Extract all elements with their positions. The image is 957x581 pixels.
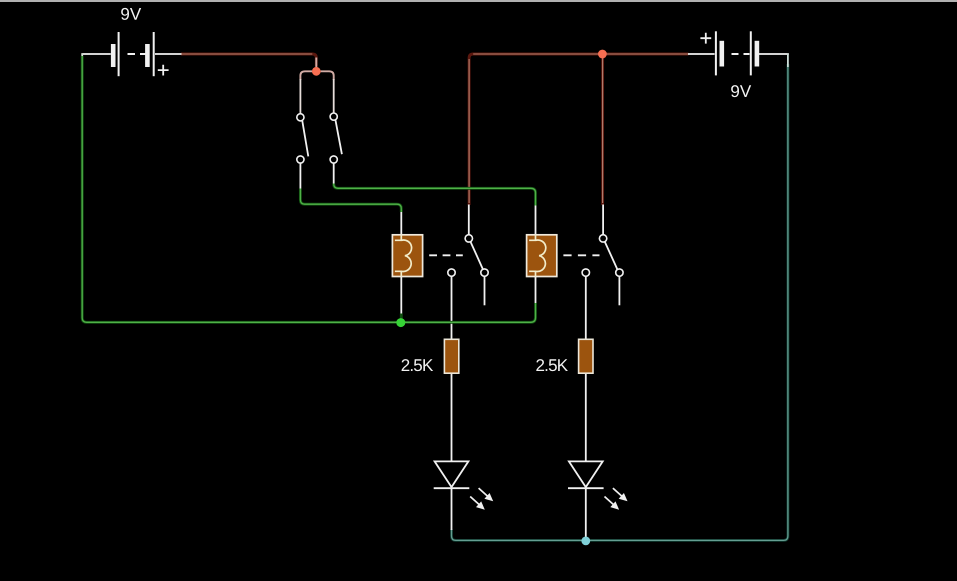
relay K2 switch: [582, 235, 623, 277]
relay K2 coil box: [527, 235, 557, 277]
LED D2: [568, 461, 604, 488]
wire: relay K1 NO contact stub: [484, 276, 486, 305]
battery B1 (9V): [113, 32, 154, 76]
wire: switch S1a bottom to relay K1 coil top (green): [300, 189, 401, 213]
node N2 (junction dot, +9V right): [598, 50, 607, 59]
switch S1b (lower pole): [330, 113, 342, 163]
wire: battery B1 negative to bottom rail (green net): [82, 56, 535, 322]
svg-text:2.5K: 2.5K: [536, 356, 569, 375]
node N3 (junction dot, green rail): [396, 318, 405, 327]
wire: relay K1 coil bottom lead: [400, 277, 402, 315]
wire: LED D2 cathode lead: [585, 488, 587, 537]
wire: node N1 vertical drop (light): [315, 58, 317, 68]
node N4 (junction dot, teal rail): [581, 537, 590, 546]
wire: node N1 branch to switch S1a: [300, 71, 312, 80]
wire: battery B2 positive feed (dark red): [469, 54, 688, 205]
wire: relay K2 NC contact to resistor R2: [585, 276, 587, 339]
window top edge: [0, 0, 957, 2]
svg-text:9V: 9V: [120, 5, 141, 24]
relay K2 linkage (dashed): [563, 254, 599, 256]
wire: relay K1 NC contact to resistor R1: [451, 276, 453, 339]
wire: battery B1 positive feed (dark red): [181, 54, 316, 67]
wire: switch S1b bottom lead: [333, 163, 335, 184]
wire: battery B2 right lead: [758, 53, 789, 55]
svg-text:9V: 9V: [730, 82, 751, 101]
resistor R1: [444, 339, 458, 373]
wire: relay K1 coil top lead: [400, 211, 402, 235]
wire: switch S1b bottom to relay K2 coil top (green): [334, 184, 536, 206]
LED D1 emission arrows: [470, 488, 493, 510]
resistor R2: [579, 339, 593, 373]
node N1 (junction dot, +9V left): [312, 67, 321, 76]
wire: battery B1 right lead: [155, 53, 182, 55]
wire: LED cathode rail to battery B2 negative (teal net): [452, 64, 788, 540]
wire: node N2 down to relay K2 switch common (dark red): [601, 57, 604, 205]
wire: battery B2 left lead: [688, 53, 715, 55]
wire: relay K2 coil bottom lead: [535, 277, 537, 305]
wire: relay K2 NO contact stub: [618, 276, 620, 305]
battery B2 plus sign: [700, 33, 711, 44]
wire: LED D1 cathode lead: [451, 488, 453, 530]
battery B1 plus sign: [158, 65, 169, 76]
svg-text:2.5K: 2.5K: [401, 356, 434, 375]
wire: node N1 branch to switch S1b: [321, 71, 334, 80]
LED D2 emission arrows: [605, 488, 628, 510]
relay K1 coil box: [392, 235, 422, 277]
wire: relay K2 coil top lead: [535, 205, 537, 235]
wire: resistor R1 to LED D1: [451, 373, 453, 461]
wire: relay K1 switch common lead: [468, 205, 470, 235]
relay K1 switch: [448, 235, 488, 277]
relay K2 coil: [529, 235, 546, 277]
relay K1 linkage (dashed): [429, 254, 463, 256]
wire: battery B1 left lead: [81, 53, 110, 55]
wire: resistor R2 to LED D2: [585, 373, 587, 461]
wire: switch S1a bottom lead: [299, 163, 301, 189]
wire: relay K1 coil bottom short green segment: [400, 314, 403, 320]
relay K1 coil: [395, 235, 412, 277]
battery B2 (9V): [716, 31, 757, 75]
wire: relay K2 switch common lead: [602, 205, 604, 235]
LED D1: [434, 461, 470, 488]
switch S1a (upper pole): [297, 114, 309, 163]
